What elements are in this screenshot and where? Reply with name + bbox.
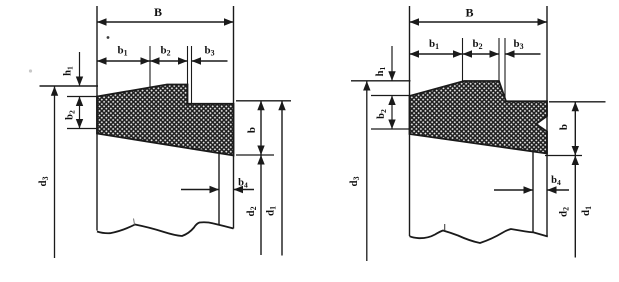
svg-text:B: B xyxy=(154,5,162,19)
svg-text:h1: h1 xyxy=(375,66,387,76)
svg-text:b: b xyxy=(246,127,258,133)
svg-text:B: B xyxy=(465,5,473,19)
svg-text:h1: h1 xyxy=(62,66,74,76)
svg-text:b2: b2 xyxy=(64,110,76,120)
svg-text:b4: b4 xyxy=(238,177,248,189)
svg-text:b: b xyxy=(558,124,570,130)
svg-text:b2: b2 xyxy=(376,109,388,119)
svg-text:b4: b4 xyxy=(551,175,561,187)
